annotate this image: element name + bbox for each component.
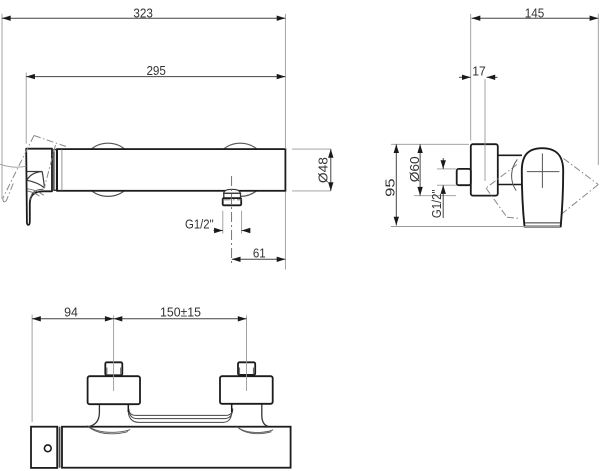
svg-text:95: 95: [383, 178, 398, 197]
svg-text:323: 323: [133, 5, 153, 20]
svg-text:295: 295: [146, 63, 166, 78]
svg-text:Ø60: Ø60: [407, 156, 422, 182]
svg-text:17: 17: [472, 64, 486, 79]
svg-text:145: 145: [525, 5, 545, 20]
svg-text:150±15: 150±15: [160, 305, 201, 320]
svg-text:G1/2": G1/2": [429, 189, 444, 218]
svg-text:G1/2": G1/2": [185, 216, 214, 231]
svg-text:94: 94: [64, 305, 78, 320]
svg-text:61: 61: [253, 246, 266, 261]
svg-text:Ø48: Ø48: [316, 157, 331, 183]
